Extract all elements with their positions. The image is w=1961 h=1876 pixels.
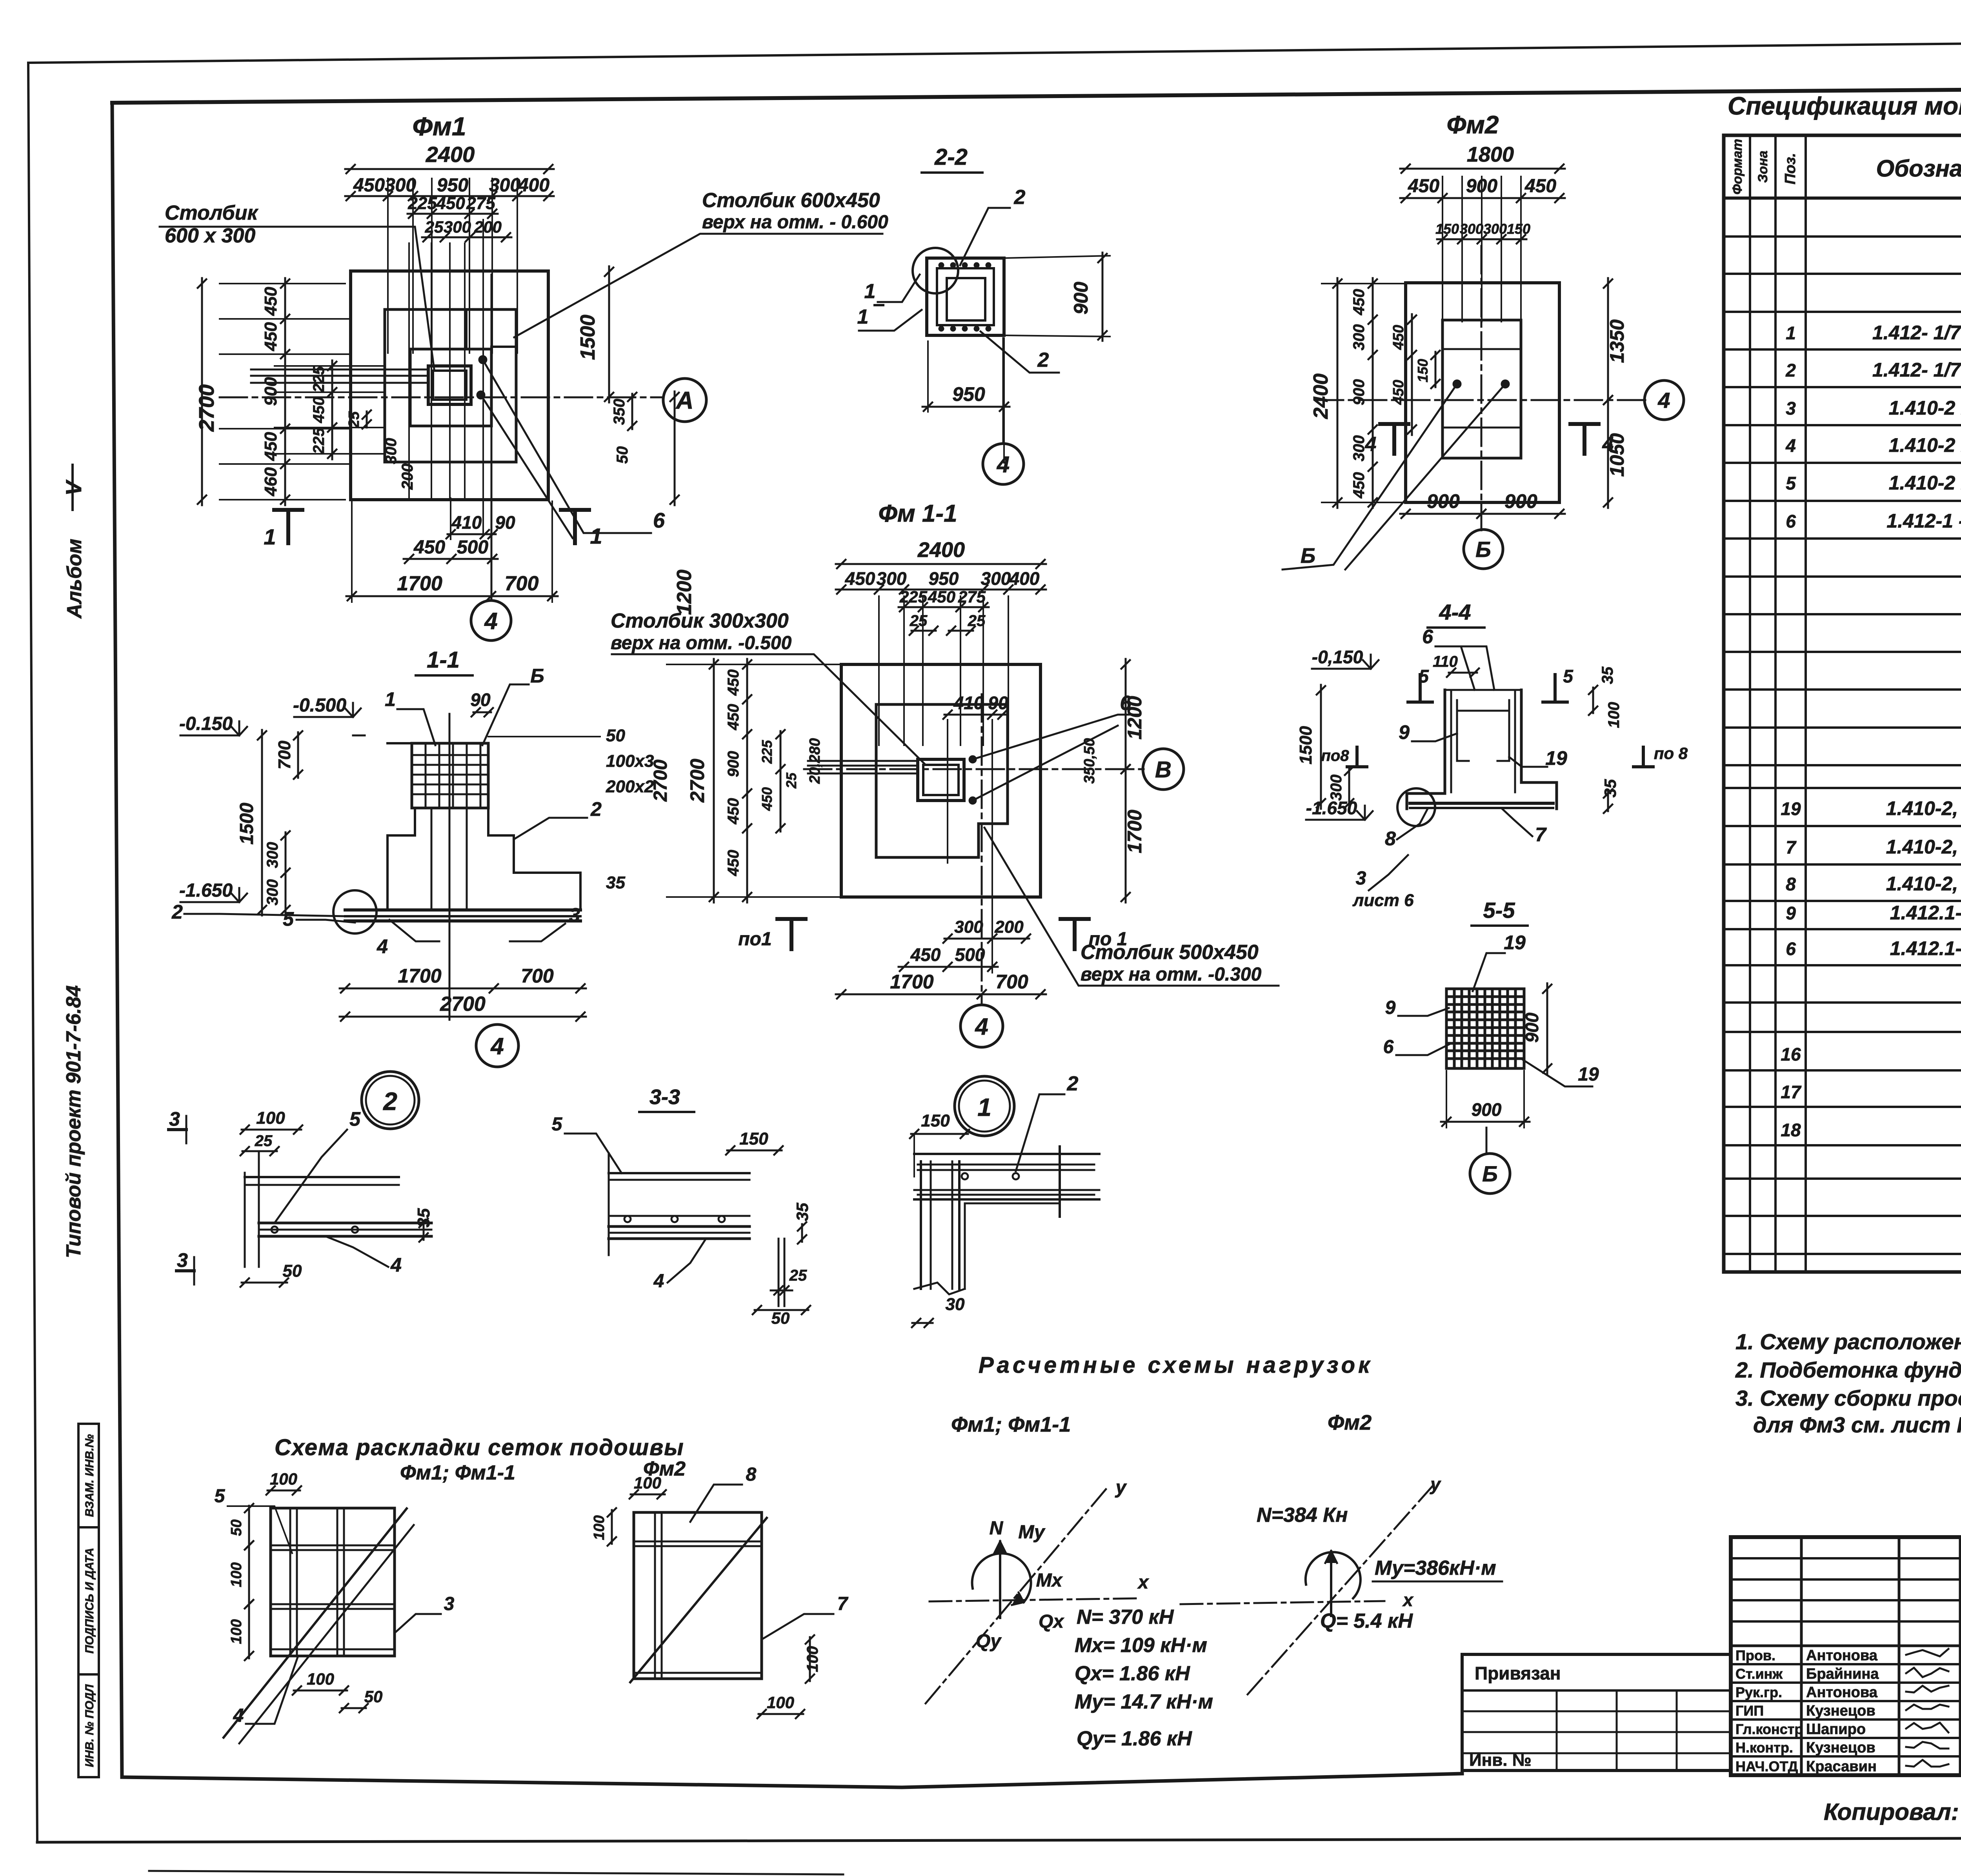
svg-text:25: 25 <box>789 1267 807 1284</box>
dim chain 225 450 275 <box>407 213 498 215</box>
inner rebar 4-4 <box>1457 700 1469 761</box>
svg-text:ИНВ. № ПОДЛ: ИНВ. № ПОДЛ <box>83 1684 96 1767</box>
node 1 leader 2 <box>1016 1094 1064 1171</box>
svg-text:8: 8 <box>1786 874 1796 894</box>
leader 6 5-5 <box>1396 1043 1451 1055</box>
svg-text:35: 35 <box>793 1203 811 1221</box>
svg-text:4: 4 <box>1602 433 1614 456</box>
svg-text:19: 19 <box>1578 1064 1599 1085</box>
svg-text:Рук.гр.: Рук.гр. <box>1735 1684 1782 1700</box>
section mark по1 left <box>789 919 793 949</box>
svg-text:300: 300 <box>444 218 471 236</box>
section 1-1 column with rebar <box>412 743 488 808</box>
svg-text:100: 100 <box>228 1619 245 1644</box>
svg-text:Антонова: Антонова <box>1806 1684 1878 1701</box>
svg-text:450: 450 <box>436 194 465 213</box>
svg-text:450: 450 <box>261 432 280 461</box>
svg-text:4: 4 <box>484 608 497 634</box>
svg-text:6: 6 <box>1786 939 1796 959</box>
svg-text:100: 100 <box>270 1470 297 1488</box>
node 1 dim 150 <box>911 1133 968 1135</box>
svg-text:2400: 2400 <box>426 142 475 167</box>
centerline horizontal to axis A <box>220 397 663 398</box>
foundation slab outline Фм1 <box>351 271 548 500</box>
node 2 rebar dots <box>271 1226 278 1233</box>
svg-text:для Фм3 см. лист КЖ-7.: для Фм3 см. лист КЖ-7. <box>1753 1412 1961 1437</box>
dim 2400 <box>345 168 554 170</box>
svg-text:100: 100 <box>307 1670 334 1688</box>
svg-text:Альбом: Альбом <box>63 539 86 619</box>
svg-text:N=384 Кн: N=384 Кн <box>1257 1504 1348 1527</box>
svg-text:5-5: 5-5 <box>1483 898 1515 923</box>
title block left grid <box>1800 1537 1803 1775</box>
svg-text:Фм2: Фм2 <box>1328 1411 1372 1434</box>
centerline vertical to axis 4 <box>491 275 493 601</box>
svg-text:16: 16 <box>1781 1044 1801 1064</box>
svg-text:2: 2 <box>383 1087 397 1115</box>
svg-text:верх на отм. -0.500: верх на отм. -0.500 <box>611 633 792 653</box>
node 1 slab <box>914 1153 1099 1155</box>
svg-text:Q= 5.4 кН: Q= 5.4 кН <box>1320 1610 1413 1632</box>
3-3 dims <box>727 1150 782 1152</box>
mesh grid 5-5 <box>1453 991 1456 1066</box>
svg-text:1.412- 1/77 вып.3: 1.412- 1/77 вып.3 <box>1872 322 1961 344</box>
svg-text:N= 370 кН: N= 370 кН <box>1077 1606 1174 1629</box>
svg-text:1: 1 <box>590 524 602 548</box>
leader 1 lower 2-2 <box>859 310 922 331</box>
svg-text:900: 900 <box>1504 490 1537 512</box>
svg-text:Привязан: Привязан <box>1475 1663 1561 1683</box>
sub chain 450 450 150 Фм2 <box>1411 314 1413 435</box>
left chain Фм2 <box>1372 278 1374 508</box>
svg-text:4: 4 <box>233 1705 244 1726</box>
svg-text:300: 300 <box>981 568 1011 589</box>
svg-text:Кузнецов: Кузнецов <box>1806 1703 1876 1719</box>
svg-text:1500: 1500 <box>577 315 599 360</box>
svg-text:1.412- 1/77 вып.3: 1.412- 1/77 вып.3 <box>1872 359 1961 381</box>
svg-text:Расчетные схемы нагрузок: Расчетные схемы нагрузок <box>979 1352 1373 1378</box>
leader 9 5-5 <box>1398 1008 1449 1016</box>
svg-text:2700: 2700 <box>440 993 486 1015</box>
svg-text:450: 450 <box>261 322 280 351</box>
svg-text:300: 300 <box>1350 324 1368 351</box>
svg-text:5: 5 <box>1786 473 1796 493</box>
svg-text:700: 700 <box>505 572 539 595</box>
svg-text:9: 9 <box>1786 903 1796 923</box>
section 2-2 inner square <box>947 278 985 320</box>
svg-text:2: 2 <box>171 901 183 923</box>
left dims Фм1-1 <box>713 659 715 903</box>
svg-text:18: 18 <box>1781 1120 1801 1140</box>
drawing frame <box>112 86 1961 103</box>
hatch node circle 4-4 <box>1397 788 1435 826</box>
level -0.150 4-4 <box>1312 668 1371 670</box>
svg-text:50: 50 <box>283 1261 302 1281</box>
svg-text:400: 400 <box>518 175 549 196</box>
svg-text:9: 9 <box>1385 997 1396 1018</box>
svg-text:450: 450 <box>1390 380 1407 405</box>
rebar dots 2-2 <box>939 262 944 268</box>
svg-text:2400: 2400 <box>1310 373 1332 419</box>
svg-text:100: 100 <box>256 1108 285 1128</box>
svg-text:950: 950 <box>952 383 985 405</box>
3-3 rebar dots <box>624 1216 631 1222</box>
svg-text:19: 19 <box>1781 799 1801 819</box>
axis circle 4 Фм1-1 <box>960 1005 1003 1047</box>
svg-text:1.412-1 - 4.080: 1.412-1 - 4.080 <box>1886 510 1961 532</box>
slab outline Фм2 <box>1406 283 1559 502</box>
right dim 1500 <box>608 266 610 402</box>
level -0.500 <box>294 716 353 718</box>
svg-text:450: 450 <box>725 704 742 731</box>
svg-text:300: 300 <box>954 917 983 937</box>
svg-text:х: х <box>1137 1572 1150 1593</box>
node 2 slab lines <box>245 1176 399 1178</box>
svg-text:1350: 1350 <box>1606 319 1628 363</box>
svg-text:4: 4 <box>377 935 388 957</box>
extension lines top dims <box>387 178 389 353</box>
svg-text:4: 4 <box>390 1254 402 1276</box>
leader 19 bottom 5-5 <box>1522 1059 1592 1086</box>
svg-text:275: 275 <box>466 194 495 213</box>
svg-text:у: у <box>1115 1477 1127 1498</box>
svg-text:2-2: 2-2 <box>934 144 968 170</box>
svg-text:-0.500: -0.500 <box>293 695 346 716</box>
svg-text:1.410-2, вып.1: 1.410-2, вып.1 <box>1886 836 1961 858</box>
svg-text:лист 6: лист 6 <box>1352 891 1414 910</box>
по8 marks 4-4 <box>1355 747 1359 767</box>
axis circle A <box>663 378 706 422</box>
svg-text:НАЧ.ОТД: НАЧ.ОТД <box>1735 1758 1798 1774</box>
svg-text:1: 1 <box>264 524 276 549</box>
svg-text:Шапиро: Шапиро <box>1806 1721 1866 1738</box>
svg-text:4: 4 <box>975 1014 988 1040</box>
svg-text:Qу= 1.86 кН: Qу= 1.86 кН <box>1077 1727 1192 1750</box>
svg-text:50: 50 <box>606 726 625 745</box>
dots Фм2 <box>1453 380 1461 388</box>
svg-text:150: 150 <box>921 1111 950 1130</box>
svg-text:900: 900 <box>725 751 742 777</box>
node 1 break mark <box>914 1283 965 1294</box>
svg-text:460: 460 <box>261 467 280 497</box>
dim 950 section 2-2 <box>922 406 1010 408</box>
svg-text:Н.контр.: Н.контр. <box>1735 1740 1793 1756</box>
extension lines Фм1-1 <box>878 596 880 745</box>
section mark 4 left Фм2 <box>1392 424 1396 454</box>
svg-text:Гл.констр: Гл.констр <box>1735 1721 1803 1737</box>
svg-text:Фм2: Фм2 <box>1447 111 1499 139</box>
svg-text:950: 950 <box>437 175 468 196</box>
svg-text:300: 300 <box>382 438 400 464</box>
svg-text:50: 50 <box>364 1687 383 1706</box>
dim 900 bottom 5-5 <box>1441 1121 1530 1123</box>
svg-text:4: 4 <box>490 1033 504 1059</box>
svg-text:1500: 1500 <box>236 802 257 844</box>
svg-text:17: 17 <box>1781 1082 1802 1102</box>
svg-text:1200: 1200 <box>1124 696 1146 739</box>
node 2 base lines <box>259 1222 431 1225</box>
svg-text:Зона: Зона <box>1755 151 1770 183</box>
dots Фм1-1 <box>969 755 977 763</box>
svg-text:1.412.1- 4.060: 1.412.1- 4.060 <box>1890 937 1961 959</box>
bottom dims 1-1 <box>340 988 586 990</box>
svg-text:90: 90 <box>495 512 515 533</box>
left chain 450 450 900 450 460 <box>284 278 286 505</box>
axis circle 4 section 2-2 <box>983 444 1024 484</box>
svg-text:Qх= 1.86 кН: Qх= 1.86 кН <box>1075 1662 1190 1685</box>
svg-text:Qу: Qу <box>976 1631 1002 1652</box>
scheme 1 arc <box>972 1554 1031 1602</box>
svg-text:450: 450 <box>353 175 385 196</box>
bottom dims Фм1 <box>448 533 496 535</box>
svg-text:100х3: 100х3 <box>606 751 654 771</box>
svg-text:2: 2 <box>1067 1072 1079 1095</box>
left sketch dims <box>267 1490 300 1492</box>
svg-text:ПОДПИСЬ И ДАТА: ПОДПИСЬ И ДАТА <box>83 1548 96 1654</box>
column 600x300 double square <box>428 366 471 404</box>
svg-text:500: 500 <box>457 537 488 558</box>
column sides below 1-1 <box>431 808 433 910</box>
svg-text:300: 300 <box>1483 221 1507 237</box>
svg-text:2: 2 <box>1785 360 1796 380</box>
svg-text:2: 2 <box>1037 349 1049 371</box>
left dims 4-4 <box>1320 685 1322 809</box>
svg-text:150: 150 <box>1435 221 1459 237</box>
svg-text:900: 900 <box>1427 490 1460 512</box>
chain 450 300 950 300 400 Фм1-1 <box>836 589 1046 591</box>
svg-text:450: 450 <box>1390 325 1407 350</box>
svg-text:450: 450 <box>261 287 280 316</box>
small 25 dim <box>366 411 368 428</box>
svg-text:100: 100 <box>804 1646 821 1672</box>
svg-text:50: 50 <box>771 1309 790 1327</box>
svg-text:-0.150: -0.150 <box>179 713 233 734</box>
svg-text:100: 100 <box>767 1693 794 1712</box>
svg-text:350,50: 350,50 <box>1081 738 1098 784</box>
svg-text:4: 4 <box>997 452 1010 477</box>
svg-text:3. Схему сборки пространстве: 3. Схему сборки пространственного каркас… <box>1735 1386 1961 1410</box>
svg-text:5: 5 <box>552 1114 563 1135</box>
svg-text:1.410-2, вып.1: 1.410-2, вып.1 <box>1886 873 1961 895</box>
svg-text:225: 225 <box>759 740 775 764</box>
centerlines Фм1-1 <box>804 768 1144 770</box>
svg-text:50: 50 <box>228 1519 245 1536</box>
bottom dims Фм1-1 <box>944 938 1029 940</box>
svg-text:8: 8 <box>1385 828 1396 850</box>
svg-text:35: 35 <box>1599 666 1616 684</box>
svg-text:4: 4 <box>1657 388 1670 413</box>
svg-text:-1.650: -1.650 <box>179 880 233 901</box>
svg-text:Му: Му <box>1018 1522 1046 1543</box>
leader 2 top 2-2 <box>960 208 1010 265</box>
svg-text:2: 2 <box>1014 186 1026 209</box>
chain 25 25 Фм1-1 <box>911 630 936 632</box>
left mesh sketch <box>271 1508 395 1656</box>
svg-text:410: 410 <box>451 512 482 533</box>
leaders 4-4 <box>1435 646 1475 690</box>
dim chain 450 300 950 300 400 <box>345 195 554 197</box>
svg-text:3: 3 <box>177 1249 188 1271</box>
svg-text:5: 5 <box>1563 666 1574 686</box>
svg-text:100: 100 <box>1605 702 1623 728</box>
svg-text:100: 100 <box>228 1562 245 1587</box>
column 300x300 Фм1-1 <box>918 759 964 801</box>
svg-text:2400: 2400 <box>917 538 965 562</box>
svg-text:50: 50 <box>614 446 631 464</box>
svg-text:450: 450 <box>413 537 445 558</box>
svg-text:450: 450 <box>725 670 742 696</box>
section 1-1 stepped body <box>387 742 412 744</box>
centerlines Фм2 <box>1316 399 1648 401</box>
svg-text:8: 8 <box>746 1464 757 1485</box>
svg-text:1800: 1800 <box>1467 143 1514 166</box>
svg-text:Qх: Qх <box>1039 1611 1064 1632</box>
section mark 1 right <box>573 510 577 543</box>
svg-text:1500: 1500 <box>1296 726 1315 764</box>
svg-text:Столбик: Столбик <box>165 202 258 224</box>
node circle 2 <box>362 1072 419 1129</box>
svg-text:450: 450 <box>759 787 775 811</box>
leader 2 bottom 2-2 <box>980 331 1059 373</box>
bottom dims Фм2 <box>1400 513 1565 515</box>
svg-text:3: 3 <box>1356 868 1366 889</box>
svg-text:450: 450 <box>725 798 742 825</box>
svg-text:2700: 2700 <box>650 759 671 802</box>
svg-text:Красавин: Красавин <box>1806 1758 1877 1775</box>
chain 225 450 275 Фм1-1 <box>899 606 989 608</box>
svg-text:200х2: 200х2 <box>606 777 654 796</box>
svg-text:450: 450 <box>310 397 327 424</box>
svg-text:ГИП: ГИП <box>1735 1703 1764 1719</box>
left dims 1-1 <box>297 732 299 778</box>
svg-text:Му=386кН·м: Му=386кН·м <box>1375 1557 1496 1579</box>
svg-text:1200: 1200 <box>673 570 696 615</box>
extension lines Фм2 <box>1442 177 1443 322</box>
svg-text:4: 4 <box>653 1271 664 1292</box>
mesh square 5-5 <box>1446 989 1524 1068</box>
svg-text:450: 450 <box>1350 289 1368 316</box>
svg-text:Му= 14.7 кН·м: Му= 14.7 кН·м <box>1075 1690 1213 1713</box>
section mark 4 right Фм2 <box>1583 424 1586 454</box>
svg-text:6: 6 <box>1383 1037 1394 1057</box>
svg-text:3-3: 3-3 <box>649 1085 680 1109</box>
svg-text:4: 4 <box>1785 435 1796 456</box>
svg-text:6: 6 <box>1786 511 1796 531</box>
level -0.150 <box>180 735 239 737</box>
svg-text:9: 9 <box>1399 721 1410 743</box>
svg-text:Формат: Формат <box>1730 139 1745 195</box>
svg-text:6: 6 <box>653 509 665 532</box>
svg-text:1-1: 1-1 <box>427 647 460 673</box>
middle step Фм1-1 <box>876 704 1008 857</box>
node 2 verticals <box>258 1153 260 1267</box>
axis circle Б 5-5 <box>1470 1154 1510 1194</box>
section 2-2 outer square <box>927 258 1004 335</box>
svg-text:300: 300 <box>385 175 416 196</box>
svg-text:2700: 2700 <box>686 759 708 802</box>
chain 150 300 300 150 <box>1437 238 1526 240</box>
level -1.650 4-4 <box>1306 819 1365 821</box>
svg-text:Б: Б <box>1482 1161 1498 1186</box>
svg-text:3: 3 <box>1786 398 1796 419</box>
svg-text:410: 410 <box>953 693 984 713</box>
svg-text:Фм1: Фм1 <box>412 112 466 141</box>
svg-text:1700: 1700 <box>890 971 933 993</box>
svg-text:Пров.: Пров. <box>1735 1647 1775 1663</box>
svg-text:Поз.: Поз. <box>1782 153 1799 185</box>
svg-text:1.410-2, вып.1: 1.410-2, вып.1 <box>1886 797 1961 819</box>
svg-text:1700: 1700 <box>398 965 441 987</box>
svg-text:350: 350 <box>611 399 628 425</box>
right dim 1200 <box>674 391 676 505</box>
svg-text:900: 900 <box>1350 379 1368 406</box>
dim 1800 <box>1400 168 1565 170</box>
svg-text:Б: Б <box>1475 537 1491 562</box>
привязан box <box>1462 1654 1731 1770</box>
svg-text:300: 300 <box>1328 775 1345 801</box>
svg-text:700: 700 <box>521 965 554 987</box>
svg-text:1. Схему расположения фундам: 1. Схему расположения фундаментов см. ли… <box>1735 1329 1961 1354</box>
svg-text:110: 110 <box>1433 653 1458 670</box>
svg-text:300: 300 <box>264 879 281 906</box>
spec table grid <box>1724 135 1961 1272</box>
svg-text:1: 1 <box>864 280 876 303</box>
right mesh sketch Фм2 <box>634 1512 762 1679</box>
level -1.650 <box>180 901 239 903</box>
scheme 2 axes <box>1181 1601 1384 1604</box>
right dims Фм2 <box>1607 278 1609 406</box>
left sketch leaders <box>396 1614 441 1632</box>
svg-text:300: 300 <box>264 842 281 868</box>
vertical centerline 1-1 <box>449 714 451 1020</box>
svg-text:5: 5 <box>349 1108 361 1130</box>
node 1 column bars <box>920 1161 922 1289</box>
svg-text:А: А <box>675 387 694 414</box>
svg-text:1: 1 <box>977 1093 991 1121</box>
third step Фм1 <box>410 349 491 426</box>
leader 19 top 5-5 <box>1473 953 1505 991</box>
svg-text:450: 450 <box>1350 472 1368 499</box>
svg-text:Столбик 600х450: Столбик 600х450 <box>702 189 880 212</box>
svg-text:300: 300 <box>489 175 520 196</box>
leader 1 upper 2-2 <box>878 275 920 302</box>
svg-text:100: 100 <box>591 1515 608 1540</box>
svg-text:25: 25 <box>910 612 928 630</box>
svg-text:Фм 1-1: Фм 1-1 <box>878 500 957 527</box>
svg-text:900: 900 <box>1070 282 1092 315</box>
svg-text:х: х <box>1402 1590 1414 1610</box>
svg-text:3: 3 <box>444 1594 455 1614</box>
svg-text:225: 225 <box>310 366 327 393</box>
svg-text:3: 3 <box>569 904 580 926</box>
svg-text:1700: 1700 <box>397 572 442 595</box>
svg-text:7: 7 <box>1535 824 1547 846</box>
svg-text:7: 7 <box>1786 837 1797 857</box>
svg-text:Ст.инж: Ст.инж <box>1735 1666 1783 1682</box>
svg-text:35: 35 <box>606 873 625 892</box>
svg-text:Инв. №: Инв. № <box>1469 1750 1532 1770</box>
svg-text:600 х 300: 600 х 300 <box>165 224 255 247</box>
svg-text:400: 400 <box>1009 568 1040 589</box>
svg-text:1.412.1- 4.050: 1.412.1- 4.050 <box>1890 902 1961 924</box>
svg-text:450: 450 <box>1408 176 1439 197</box>
slab outline Фм1-1 <box>841 664 1041 897</box>
svg-text:Брайнина: Брайнина <box>1806 1666 1879 1682</box>
svg-text:275: 275 <box>958 588 986 606</box>
3-3 slab lines <box>609 1172 749 1174</box>
section mark 1 left <box>286 510 290 543</box>
svg-text:150: 150 <box>1507 221 1530 237</box>
